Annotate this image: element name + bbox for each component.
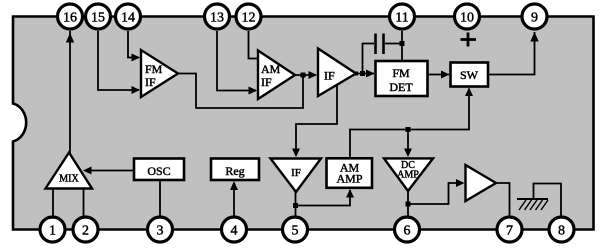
wire: second IF output down to pin 5 [295,191,297,218]
wire: branch down into DC AMP [404,130,412,158]
wire: pin 15 to FM IF lower input [98,31,140,94]
wire: IF amp tap down to second IF amp input [292,85,337,158]
svg-text:FM: FM [392,66,410,80]
svg-text:AMP: AMP [397,170,419,181]
wire: SW output up to pin 9 [488,32,539,75]
block OSC [134,159,184,181]
pin 12 [236,4,261,29]
pin 16 [58,4,83,29]
svg-text:1: 1 [49,224,56,239]
pin 1 [40,217,65,242]
wire: pin 11 to FM DET top [401,31,403,61]
svg-text:9: 9 [531,11,538,26]
mixer MIX [46,153,93,189]
pin 15 [86,4,111,29]
wire: OSC to MIX [83,167,134,175]
svg-text:FM: FM [145,62,163,76]
op-amp IF (second, inverted) [271,159,322,193]
pin 3 [148,217,173,242]
svg-text:MIX: MIX [59,174,79,185]
svg-text:2: 2 [82,224,89,239]
svg-text:6: 6 [404,224,411,239]
junction: DC AMP output node [406,202,411,207]
pin 5 [283,217,308,242]
block SW [451,63,489,87]
wire: MIX output to pin 16 [66,31,74,153]
op-amp FM IF [141,50,178,97]
svg-text:4: 4 [231,224,238,239]
junction: second IF output node [293,203,298,208]
wire: pin 14 to FM IF upper input [128,31,140,62]
svg-text:AMP: AMP [336,172,362,186]
wire: OSC bottom to pin 3 [159,180,161,218]
pin 8 [549,217,574,242]
junction: node at AM IF output [301,73,306,78]
wire: MIX to pin 2 [83,188,85,218]
ground (chassis) symbol [517,199,548,210]
svg-text:IF: IF [145,75,156,89]
pin 11 [390,4,415,29]
wire: pin 13 to AM IF lower input [217,31,257,95]
wire: capacitor left branch [363,44,375,74]
junction: pin 11 line and capacitor [400,41,405,46]
op-amp output buffer [466,165,497,201]
op-amp IF [318,49,356,97]
svg-text:3: 3 [157,224,164,239]
junction: small node at IF amp tip [354,72,358,76]
pin 6 [395,217,420,242]
svg-text:13: 13 [210,11,224,26]
wire: pin 4 up to Reg [230,181,238,218]
block Reg [211,159,259,181]
svg-text:OSC: OSC [147,164,170,178]
wire: FM DET output to SW input [428,71,450,79]
wire: IF output node to AM AMP bottom [296,189,355,206]
pin 10 [455,4,480,29]
pin 9 [522,4,547,29]
svg-text:Reg: Reg [225,164,244,178]
svg-text:IF: IF [261,75,272,89]
svg-text:11: 11 [395,11,408,26]
svg-text:12: 12 [242,11,256,26]
svg-text:8: 8 [558,224,565,239]
svg-text:5: 5 [292,224,299,239]
svg-text:IF: IF [291,167,301,179]
wire: MIX to pin 1 [52,188,54,218]
pin 2 [73,217,98,242]
svg-text:10: 10 [460,11,474,26]
block AM AMP [327,158,373,188]
capacitor C1 [376,34,384,55]
svg-text:IF: IF [324,69,335,83]
wire: AM IF output to IF amp input [294,71,317,79]
plus marker near pin 10 [461,33,477,47]
wire: capacitor right plate to pin 11 line [385,43,402,45]
pin 13 [205,4,230,29]
wire: DC AMP output down to pin 6 [407,190,409,218]
wire: AM AMP top to SW bottom with DC AMP branch [350,88,473,160]
op-amp DC AMP (inverted) [384,158,433,191]
block FM DET [376,61,428,96]
svg-text:16: 16 [63,11,77,26]
pin 4 [222,217,247,242]
wire: DC AMP node to output amp input [408,179,465,204]
svg-text:15: 15 [91,11,105,26]
junction: DC AMP branch node [406,127,411,132]
wire: FM IF output loop to IF input node [177,74,303,109]
wire: pin 12 to AM IF upper input [249,31,260,59]
pin 7 [497,217,522,242]
wire: IF output to FM DET input [355,70,375,78]
svg-text:DET: DET [389,80,413,94]
wire: output amp to pin 7 [495,183,510,218]
op-amp AM IF [258,51,295,100]
pin 14 [116,4,141,29]
wire: ground to pin 8 [534,184,562,219]
svg-text:7: 7 [506,224,513,239]
svg-text:AM: AM [261,62,281,76]
junction: node at IF output / capacitor branch [360,71,365,76]
svg-text:14: 14 [121,11,135,26]
svg-text:SW: SW [460,68,479,82]
